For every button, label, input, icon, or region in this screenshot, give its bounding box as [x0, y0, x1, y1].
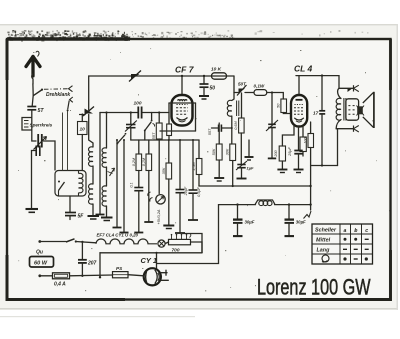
capacitor 25uF — [298, 127, 300, 151]
trimmer cap below bus — [130, 113, 132, 125]
wire 0,1M drop — [148, 171, 150, 222]
ground (L2) — [88, 215, 100, 217]
box 60W — [30, 257, 54, 268]
IF core lines — [237, 101, 239, 117]
border frame — [7, 39, 391, 300]
wire grid bus left drop — [99, 113, 101, 215]
antenna coupling trimmer — [85, 109, 94, 114]
oscillator coil L3 — [106, 113, 108, 149]
capacitor 1n grid — [271, 93, 273, 125]
svg-text:Sperrkreis: Sperrkreis — [30, 123, 53, 128]
oscillator coil L3b — [102, 186, 107, 206]
svg-text:50K: 50K — [212, 148, 216, 155]
svg-text:a: a — [344, 228, 347, 234]
svg-text:EF7 CL4 CY1 U 0,20: EF7 CL4 CY1 U 0,20 — [97, 233, 139, 238]
capacitor 100 — [137, 107, 139, 119]
resistor 0,1M — [146, 154, 152, 171]
ground — [120, 232, 129, 234]
paper specks — [18, 48, 390, 292]
wire HT bus — [219, 204, 311, 206]
band switch blade (osc) — [68, 101, 70, 110]
svg-text:60 W: 60 W — [34, 260, 48, 266]
wire bus corner down — [232, 76, 234, 101]
ground (200) — [277, 169, 287, 171]
heater chain (series filaments) — [96, 239, 157, 244]
node — [105, 111, 107, 113]
svg-text:0,5µF: 0,5µF — [197, 186, 201, 196]
wire tuning cap to ground — [32, 151, 37, 209]
transformer core — [344, 98, 346, 121]
capacitor 55T — [222, 127, 232, 129]
svg-text:207: 207 — [87, 261, 97, 267]
svg-text:20µF: 20µF — [184, 186, 188, 196]
band switch 2 — [116, 143, 118, 145]
switch in coil unit — [58, 181, 60, 183]
wire CL4 top — [296, 75, 339, 77]
svg-text:25µF: 25µF — [288, 146, 292, 156]
wire end hook — [304, 211, 312, 219]
svg-text:100: 100 — [134, 101, 142, 107]
ground — [134, 232, 143, 234]
ground (antenna circuit) — [26, 208, 39, 210]
ground (50K) — [214, 177, 224, 179]
svg-text:10: 10 — [80, 127, 86, 133]
ground (L3) — [101, 217, 113, 219]
svg-text:100: 100 — [303, 136, 307, 143]
wire top HT bus — [89, 76, 234, 110]
switch S1 (antenna) — [41, 89, 43, 91]
rectifier tube CY1 — [144, 268, 161, 285]
Sperrkreis trap — [22, 118, 32, 131]
resistor 0,1W — [254, 90, 267, 96]
svg-text:30µF: 30µF — [245, 220, 255, 225]
variable tuning capacitor C-gang — [37, 134, 39, 148]
page right edge shadow — [397, 24, 399, 310]
aerial coil L2 — [89, 115, 93, 148]
svg-text:5T: 5T — [38, 108, 45, 114]
svg-text:+5V0,2A: +5V0,2A — [156, 209, 161, 224]
svg-text:Lang: Lang — [317, 248, 331, 254]
capacitor 50 to ground — [203, 75, 205, 77]
svg-text:c: c — [365, 228, 368, 234]
wire drop x124 — [123, 140, 125, 232]
capacitor 5T — [27, 106, 36, 108]
scan noise band — [7, 30, 368, 42]
svg-text:55T: 55T — [151, 132, 156, 139]
svg-text:0,6M: 0,6M — [234, 120, 238, 129]
svg-text:10 K: 10 K — [211, 67, 222, 73]
resistor 200 — [279, 146, 285, 161]
table dashes row Lang — [343, 248, 369, 250]
wire cathode return — [183, 234, 202, 253]
svg-text:Scheller: Scheller — [315, 228, 337, 234]
wire anode row to IF — [234, 92, 254, 94]
ground — [113, 227, 122, 229]
svg-text:0,1: 0,1 — [130, 182, 134, 187]
capacitor 0,1 — [138, 171, 140, 188]
svg-text:Qu: Qu — [36, 250, 43, 256]
wire mains top — [40, 241, 66, 243]
table dots row dial — [343, 257, 346, 260]
capacitor 1uF — [241, 93, 243, 118]
CL4 cathode resistor — [302, 126, 304, 137]
speaker magnet — [357, 106, 363, 114]
wire tuning cap to band switch box — [44, 141, 56, 170]
node CF7 anode drop — [181, 75, 183, 77]
svg-text:CF 7: CF 7 — [175, 65, 195, 75]
aerial coil L2b — [89, 184, 94, 204]
antenna curl — [36, 51, 39, 56]
ground — [144, 221, 153, 223]
resistor 30K — [230, 144, 236, 161]
resistor 50K (CF7 anode load) — [216, 144, 222, 160]
ground (50) — [199, 95, 209, 97]
band switch table — [312, 224, 373, 264]
trimmer 50T — [239, 89, 246, 94]
resistor 10K — [212, 73, 227, 79]
Drehklank link lower fork — [70, 97, 73, 102]
fuse 0,4A — [53, 273, 70, 279]
wire PS fuse to CY1 — [128, 275, 144, 276]
svg-text:Drehklank: Drehklank — [46, 92, 70, 98]
wire drop x117 — [116, 140, 118, 227]
ground stub — [248, 140, 250, 157]
capacitor 0,5uF — [192, 140, 194, 190]
Drehklank dash-dot link — [44, 88, 68, 91]
resistor 35K — [166, 163, 172, 179]
headphone jack — [148, 192, 153, 202]
svg-text:55T: 55T — [208, 128, 212, 135]
svg-text:CY 1: CY 1 — [141, 256, 158, 265]
svg-text:1µF: 1µF — [247, 166, 255, 171]
capacitor 207 — [81, 242, 83, 260]
resistor 100 — [308, 134, 314, 148]
wire screen bus — [199, 185, 311, 187]
ground (1uF) — [237, 178, 247, 180]
resistor 50 (screen) — [281, 99, 287, 113]
speaker body — [346, 99, 359, 120]
wire mains bottom — [40, 275, 53, 277]
tube CF7 — [172, 95, 193, 126]
svg-text:50: 50 — [210, 86, 216, 92]
wire grid bus — [100, 112, 138, 114]
page left lower shadow line — [0, 316, 195, 317]
mains dot L — [38, 240, 41, 243]
output transformer primary — [338, 88, 341, 98]
padder capacitor 10 — [78, 122, 88, 135]
resistor grid leak 0,6M — [239, 118, 245, 133]
electrolytic 30uF (2) — [288, 203, 290, 205]
resistor 0,2M — [136, 154, 142, 171]
ground (1n) — [268, 157, 276, 159]
HF choke — [255, 200, 275, 205]
table dial row symbol — [322, 255, 329, 262]
speaker cone — [363, 92, 374, 127]
band switch / coil unit box — [55, 171, 86, 197]
resistor feed (1,5M) — [196, 159, 202, 175]
wire HT to rectifier — [157, 205, 219, 264]
svg-text:CL 4: CL 4 — [294, 64, 313, 74]
wire to CL4 grid — [267, 93, 284, 100]
svg-text:200: 200 — [274, 149, 278, 157]
IF coil — [227, 100, 232, 116]
tube shield wires — [169, 102, 196, 104]
capacitor 17 — [319, 110, 325, 112]
wire transformer return — [337, 129, 339, 166]
svg-text:30K: 30K — [225, 148, 229, 155]
tuning cap arrow — [34, 137, 47, 150]
resistor 700 tapped — [165, 242, 168, 244]
antenna — [26, 57, 40, 77]
svg-text:0,4 A: 0,4 A — [54, 281, 66, 287]
wire 700 to dropper — [191, 242, 203, 253]
svg-text:5F: 5F — [78, 214, 85, 220]
wire fuse to PS fuse — [70, 274, 113, 277]
svg-text:0,1W: 0,1W — [254, 84, 265, 89]
page bottom edge shadow — [0, 308, 398, 310]
mains switch — [66, 239, 75, 242]
pickup jack lower — [336, 120, 341, 129]
svg-text:0,1M: 0,1M — [142, 157, 146, 166]
svg-text:0,2M: 0,2M — [132, 157, 136, 166]
wire 5T down — [32, 110, 36, 141]
electrolytic 30uF (1) — [236, 203, 238, 205]
CF7 screen resistor — [167, 124, 172, 136]
tube CL4 — [291, 95, 307, 127]
wave switch — [144, 130, 146, 132]
svg-text:50T: 50T — [238, 82, 247, 87]
wire anode row — [131, 139, 199, 141]
ground — [188, 219, 198, 221]
table dots row Mittel — [344, 238, 347, 241]
svg-text:PS: PS — [116, 266, 123, 271]
ground — [175, 232, 185, 234]
svg-text:35K: 35K — [162, 167, 166, 174]
capacitor 5F to ground — [69, 196, 71, 212]
svg-text:Mittel: Mittel — [316, 238, 331, 244]
ground — [163, 225, 174, 227]
resistor 55T vertical — [156, 123, 162, 139]
trimmer on HT bus — [131, 74, 140, 80]
capacitor 20uF — [179, 140, 181, 189]
ground (25uF) — [294, 169, 304, 171]
wire HT feed row — [311, 165, 338, 167]
wire heater return — [100, 252, 202, 254]
dial lamp — [158, 240, 165, 247]
node 17 drop — [321, 74, 323, 76]
fuse PS — [113, 272, 129, 278]
svg-text:30µF: 30µF — [296, 220, 306, 225]
svg-text:1,5M: 1,5M — [192, 161, 196, 170]
svg-text:17: 17 — [313, 111, 319, 117]
wire antenna to switch — [32, 74, 33, 84]
mains dot N — [38, 274, 41, 277]
gang link lines — [63, 111, 68, 171]
svg-text:Lorenz 100 GW: Lorenz 100 GW — [257, 275, 371, 300]
core adjust arrow — [110, 168, 115, 176]
pickup jack upper — [339, 76, 354, 89]
page top edge shadow — [0, 24, 398, 25]
coil L1 in unit — [79, 173, 84, 192]
